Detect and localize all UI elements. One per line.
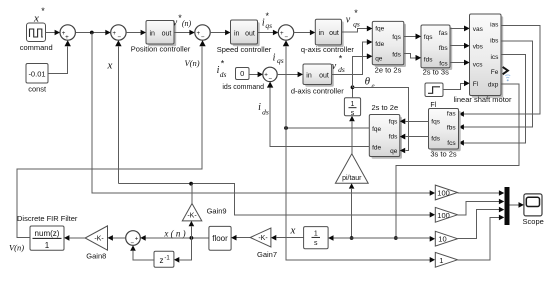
svg-text:+: + bbox=[112, 30, 116, 37]
svg-text:num(z): num(z) bbox=[35, 229, 60, 238]
svg-text:Gain8: Gain8 bbox=[86, 251, 106, 260]
wire sum2 to position controller bbox=[126, 30, 146, 36]
svg-text:fcs: fcs bbox=[447, 140, 456, 147]
svg-text:fqs: fqs bbox=[389, 118, 398, 125]
svg-text:1: 1 bbox=[45, 241, 50, 250]
svg-text:linear shaft motor: linear shaft motor bbox=[454, 95, 512, 104]
subsystem "Speed controller" bbox=[217, 20, 272, 54]
wire sum1 to sum2 bbox=[75, 30, 110, 36]
svg-text:Fl: Fl bbox=[473, 81, 479, 88]
svg-text:ias: ias bbox=[490, 21, 499, 28]
signal label ids bbox=[258, 102, 269, 117]
pulse generator "command" bbox=[20, 23, 53, 52]
wire ibs feedback to 3s-to-2s fbs bbox=[459, 41, 533, 130]
signal label v*(n) bbox=[173, 13, 192, 29]
wire gain8 to FIR bbox=[64, 235, 85, 241]
signal logging badge bbox=[505, 75, 510, 81]
wire x(n) to gain9 bbox=[189, 221, 195, 238]
svg-text:x: x bbox=[33, 13, 39, 25]
wire sum4 to q-axis controller bbox=[294, 30, 316, 36]
wire gain100a to mux bbox=[458, 190, 505, 196]
svg-text:x ( n ): x ( n ) bbox=[163, 229, 185, 239]
svg-text:pi/taur: pi/taur bbox=[342, 175, 362, 182]
svg-text:fqe: fqe bbox=[372, 126, 381, 133]
svg-text:qe: qe bbox=[375, 56, 383, 63]
transform block "2e to 2s" bbox=[367, 21, 406, 74]
svg-text:qe: qe bbox=[390, 148, 398, 155]
svg-text:1: 1 bbox=[314, 230, 318, 237]
wire dxp feedback bbox=[396, 84, 519, 238]
svg-text:v: v bbox=[173, 18, 178, 29]
svg-text:ds: ds bbox=[262, 108, 269, 117]
svg-text:+: + bbox=[280, 30, 284, 37]
wire x measured line bbox=[118, 184, 430, 215]
wire q-axis controller to 2e-to-2s fqe bbox=[342, 26, 373, 32]
wire gain10 to mux bbox=[458, 207, 505, 239]
signal label iqs bbox=[273, 53, 284, 65]
svg-text:fqs: fqs bbox=[431, 118, 440, 125]
floor block bbox=[209, 226, 231, 250]
svg-text:fds: fds bbox=[431, 135, 440, 142]
wire pi/taur to integrator bbox=[349, 116, 355, 154]
wire theta to 2s-to-2e qe bbox=[353, 87, 409, 150]
integrator block "1/s" (theta) bbox=[344, 98, 360, 117]
node x-star branch bbox=[90, 31, 94, 35]
svg-text:qs: qs bbox=[353, 20, 360, 29]
svg-text:fqe: fqe bbox=[375, 25, 384, 32]
svg-text:fbs: fbs bbox=[447, 125, 456, 132]
svg-text:-K-: -K- bbox=[258, 235, 268, 242]
wire step to motor Fl bbox=[443, 81, 470, 90]
wire 3s-to-2s fqs to 2s-to-2e fqs bbox=[400, 119, 429, 125]
svg-text:out: out bbox=[329, 30, 339, 37]
signal label i*ds bbox=[217, 59, 227, 80]
constant block "-0.01" (const) bbox=[26, 64, 48, 94]
svg-text:ds: ds bbox=[220, 70, 227, 79]
svg-text:1: 1 bbox=[351, 101, 355, 108]
unconnected output arrow Fe bbox=[503, 67, 508, 74]
wire sum3 to speed controller bbox=[210, 30, 230, 36]
wire gain100b to mux bbox=[458, 199, 505, 215]
wire fbs to vbs bbox=[450, 43, 470, 49]
sum junction S4 (+ -) bbox=[278, 25, 293, 41]
svg-text:vcs: vcs bbox=[473, 62, 484, 69]
wire x(n) to sum6 bbox=[140, 235, 209, 241]
subsystem "linear shaft motor" bbox=[454, 14, 512, 104]
svg-text:Position controller: Position controller bbox=[131, 45, 191, 54]
svg-text:-K-: -K- bbox=[94, 236, 104, 243]
wire integrator out to theta node bbox=[352, 87, 354, 98]
mux bbox=[505, 187, 510, 225]
svg-text:e: e bbox=[371, 82, 374, 90]
svg-text:fqs: fqs bbox=[424, 34, 433, 41]
node dxp junction bbox=[394, 236, 398, 240]
wire ids feedback to sum5 bbox=[267, 82, 369, 147]
wire d-axis controller to 2e-to-2s fde bbox=[332, 39, 373, 74]
svg-text:z: z bbox=[160, 256, 164, 265]
wire speed to pi/taur bbox=[349, 183, 355, 238]
svg-text:Fl: Fl bbox=[430, 102, 436, 109]
wire position controller to sum3 bbox=[174, 30, 195, 36]
wire x feedback to sum2 bbox=[115, 40, 121, 184]
svg-text:-0.01: -0.01 bbox=[28, 69, 45, 78]
gain block 1 bbox=[435, 252, 457, 267]
svg-text:100: 100 bbox=[437, 211, 450, 220]
svg-text:+: + bbox=[135, 235, 139, 242]
node speed branch bbox=[350, 236, 354, 240]
svg-text:v: v bbox=[346, 14, 351, 25]
svg-text:v: v bbox=[332, 61, 337, 72]
wire unit delay to sum6 bbox=[130, 245, 154, 259]
wire const to sum1 bbox=[48, 40, 71, 73]
svg-text:in: in bbox=[150, 30, 156, 37]
wire ids command to sum5 bbox=[249, 72, 263, 78]
svg-text:3s to 2s: 3s to 2s bbox=[430, 149, 457, 158]
svg-text:−: − bbox=[201, 34, 205, 41]
svg-text:V(n): V(n) bbox=[184, 58, 199, 68]
svg-text:fde: fde bbox=[375, 41, 384, 48]
wire theta to 2e-to-2s qe bbox=[353, 54, 373, 88]
svg-text:qs: qs bbox=[277, 56, 284, 65]
wire gain7 to floor bbox=[231, 235, 250, 241]
discrete FIR filter block "num(z)/1" bbox=[30, 226, 64, 250]
gain block 100 (b) bbox=[435, 207, 457, 222]
wire dxp distribution line bbox=[328, 235, 435, 241]
svg-text:fbs: fbs bbox=[439, 45, 448, 52]
svg-text:fds: fds bbox=[389, 133, 398, 140]
svg-text:Fe: Fe bbox=[491, 69, 499, 76]
svg-text:i: i bbox=[258, 102, 261, 113]
sum junction S1 (+ +) bbox=[60, 25, 75, 41]
svg-text:(n): (n) bbox=[182, 19, 192, 28]
svg-text:+: + bbox=[65, 34, 69, 41]
svg-text:*: * bbox=[221, 59, 225, 69]
svg-text:x: x bbox=[290, 225, 296, 237]
wire command to sum1 bbox=[46, 30, 61, 36]
svg-text:-K-: -K- bbox=[187, 213, 197, 220]
wire fas to vas bbox=[450, 26, 470, 32]
svg-text:i: i bbox=[273, 53, 276, 64]
wire x-star to gain100a bbox=[92, 33, 435, 196]
wire 3s-to-2s fds to 2s-to-2e fds bbox=[400, 134, 429, 140]
svg-text:ics: ics bbox=[490, 54, 499, 61]
sum junction S2 (+ -) bbox=[111, 25, 126, 41]
wire integrator2 to gain7 bbox=[271, 235, 304, 241]
wire fcs to vcs bbox=[450, 60, 470, 66]
svg-text:fas: fas bbox=[439, 30, 448, 37]
node theta-e bbox=[351, 85, 355, 89]
gain block 100 (a) bbox=[435, 185, 457, 200]
wire ics feedback to 3s-to-2s fcs bbox=[459, 54, 526, 145]
subsystem "q-axis controller" bbox=[301, 19, 354, 54]
svg-text:vas: vas bbox=[473, 26, 484, 33]
svg-text:q-axis controller: q-axis controller bbox=[301, 45, 354, 54]
node x(n) branch bbox=[190, 236, 194, 240]
wire gain9 to x measured line bbox=[191, 184, 193, 204]
svg-text:ds: ds bbox=[338, 65, 345, 74]
svg-text:−: − bbox=[284, 34, 288, 41]
wire mux to scope bbox=[510, 202, 524, 208]
svg-text:fde: fde bbox=[372, 144, 381, 151]
svg-text:Gain7: Gain7 bbox=[257, 250, 277, 259]
svg-text:−: − bbox=[117, 34, 121, 41]
svg-text:2s to 3s: 2s to 3s bbox=[423, 68, 450, 77]
signal label theta-e bbox=[365, 76, 375, 90]
svg-text:−: − bbox=[268, 75, 272, 82]
gain block Gain9 bbox=[182, 204, 202, 221]
wire sum5 to d-axis controller bbox=[277, 72, 303, 78]
wire 2e-to-2s fds to 2s-to-3s fds bbox=[404, 54, 421, 61]
svg-text:s: s bbox=[314, 240, 318, 247]
svg-text:out: out bbox=[319, 72, 329, 79]
svg-text:fds: fds bbox=[392, 51, 401, 58]
svg-text:Speed controller: Speed controller bbox=[217, 45, 272, 54]
wire fqe output bbox=[286, 127, 369, 129]
svg-text:in: in bbox=[234, 30, 240, 37]
svg-text:out: out bbox=[162, 30, 172, 37]
svg-text:fqs: fqs bbox=[392, 34, 401, 41]
subsystem "Position controller" bbox=[131, 21, 191, 54]
svg-text:fas: fas bbox=[447, 111, 456, 118]
svg-text:x: x bbox=[107, 60, 113, 72]
svg-text:ids command: ids command bbox=[222, 84, 264, 91]
svg-text:in: in bbox=[319, 30, 325, 37]
wire iqs to gain1 bbox=[286, 128, 435, 263]
svg-text:-1: -1 bbox=[164, 256, 170, 262]
svg-text:10: 10 bbox=[438, 235, 446, 244]
gain block 10 bbox=[435, 231, 457, 246]
gain block pi/taur bbox=[335, 154, 368, 183]
svg-text:out: out bbox=[245, 30, 255, 37]
node iqs junction bbox=[284, 126, 288, 130]
svg-text:−: − bbox=[130, 240, 134, 247]
gain block Gain7 bbox=[250, 228, 271, 247]
transform block "3s to 2s" bbox=[429, 109, 461, 159]
wire V(n) feedback to sum3 bbox=[17, 40, 206, 238]
svg-text:vbs: vbs bbox=[473, 44, 484, 51]
svg-text:dxp: dxp bbox=[488, 81, 499, 88]
signal label v*ds bbox=[332, 54, 345, 75]
svg-text:qs: qs bbox=[265, 21, 272, 30]
scope block bbox=[523, 194, 544, 226]
wire ias feedback to 3s-to-2s fas bbox=[459, 25, 541, 116]
svg-text:θ: θ bbox=[365, 76, 371, 88]
wire speed controller to sum4 bbox=[258, 30, 279, 36]
wire x(n) to unit delay bbox=[174, 238, 192, 263]
sum junction S5 (+ -) bbox=[263, 67, 277, 82]
wire sum6 to gain8 bbox=[108, 235, 126, 241]
svg-text:const: const bbox=[28, 84, 47, 93]
svg-text:0: 0 bbox=[240, 69, 244, 78]
svg-text:*: * bbox=[41, 6, 45, 16]
transform block "2s to 3s" bbox=[416, 25, 453, 77]
svg-text:in: in bbox=[306, 72, 312, 79]
svg-text:ibs: ibs bbox=[490, 38, 499, 45]
svg-text:Gain9: Gain9 bbox=[207, 206, 227, 215]
svg-text:s: s bbox=[351, 110, 355, 117]
svg-text:100: 100 bbox=[437, 189, 450, 198]
svg-text:*: * bbox=[339, 54, 343, 64]
unit delay block z-1 bbox=[154, 251, 174, 267]
svg-text:V(n): V(n) bbox=[9, 243, 24, 253]
gain block Gain8 bbox=[85, 226, 107, 261]
svg-text:+: + bbox=[196, 30, 200, 37]
svg-text:floor: floor bbox=[212, 234, 228, 243]
subsystem "d-axis controller" bbox=[291, 64, 344, 96]
svg-text:fds: fds bbox=[424, 57, 433, 64]
step source "Fl" bbox=[425, 83, 443, 109]
constant block "0" (ids command) bbox=[222, 68, 264, 92]
integrator block 1/s (position) bbox=[304, 227, 329, 249]
svg-text:Discrete FIR Filter: Discrete FIR Filter bbox=[17, 214, 78, 223]
svg-text:*: * bbox=[266, 11, 270, 21]
svg-text:2e to 2s: 2e to 2s bbox=[375, 65, 402, 74]
signal label i*qs bbox=[262, 11, 272, 30]
signal label x* bbox=[33, 6, 45, 25]
svg-text:command: command bbox=[20, 43, 53, 52]
wire 2e-to-2s fqs to 2s-to-3s fqs bbox=[404, 34, 421, 40]
signal label v*qs bbox=[346, 8, 360, 29]
sum junction S3 (+ -) bbox=[195, 25, 210, 41]
svg-text:Scope: Scope bbox=[523, 217, 544, 226]
svg-text:*: * bbox=[354, 8, 358, 18]
svg-text:1: 1 bbox=[439, 256, 443, 265]
sum junction S6 (+ -) bbox=[126, 231, 141, 247]
transform block "2s to 2e" bbox=[369, 103, 405, 159]
svg-text:2s to 2e: 2s to 2e bbox=[371, 103, 398, 112]
node x measured branch bbox=[189, 182, 193, 186]
svg-text:d-axis controller: d-axis controller bbox=[291, 87, 344, 96]
wire iqs feedback to sum4 bbox=[283, 40, 289, 128]
wire gain1 to mux bbox=[458, 215, 505, 260]
